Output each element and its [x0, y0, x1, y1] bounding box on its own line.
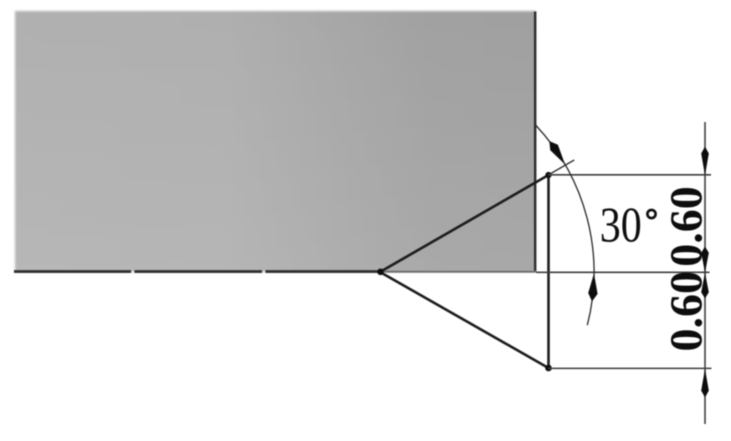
arrow below middle (tip y=272.8)	[701, 273, 709, 299]
vertical dimension line (x=705)	[704, 122, 706, 424]
upper corner node	[545, 172, 551, 178]
groove right vertical edge	[547, 175, 550, 368]
workpiece right edge	[534, 12, 536, 272]
dimension line bottom (y=368.4)	[549, 367, 712, 369]
dimension line middle (y=272.3)	[536, 271, 710, 273]
arrow top (tip y=175)	[701, 147, 709, 176]
svg-text:0.60: 0.60	[661, 271, 712, 352]
extension line along 30 deg side	[550, 160, 574, 174]
arrow bottom (tip y=368.8)	[701, 369, 709, 398]
angle dimension arc	[536, 125, 595, 325]
svg-text:0.60: 0.60	[661, 186, 712, 267]
degree symbol	[647, 210, 655, 218]
workpiece body (gray block)	[15, 11, 536, 272]
svg-text:30: 30	[600, 197, 642, 253]
workpiece bottom edge right of vertex (soft)	[381, 271, 536, 273]
lower corner node	[545, 365, 552, 372]
arrow above middle (tip y=272.8)	[701, 247, 709, 273]
chamfer lower edge	[380, 272, 549, 368]
arc arrowhead at 30 deg side	[549, 141, 565, 164]
arc arrowhead at horizontal side	[588, 274, 597, 302]
vertex node	[377, 269, 384, 276]
chamfer upper edge (30 deg)	[380, 175, 549, 272]
dimension line top (y=175)	[549, 174, 712, 176]
workpiece bottom edge	[14, 270, 131, 273]
